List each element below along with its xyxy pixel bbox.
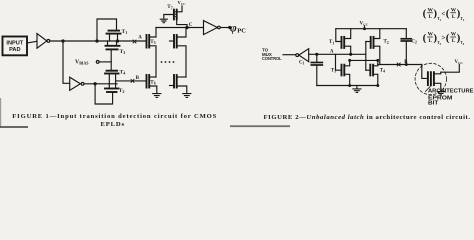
node dot C bbox=[186, 26, 188, 28]
node dot J1 bbox=[62, 40, 64, 42]
svg-text:T4: T4 bbox=[380, 68, 385, 73]
node dot rail-T3 bbox=[349, 85, 351, 87]
svg-text:C1: C1 bbox=[299, 60, 305, 65]
node dot A2-C1 bbox=[316, 53, 318, 55]
svg-text:VCC: VCC bbox=[455, 60, 464, 65]
svg-text:BIT: BIT bbox=[428, 101, 439, 107]
svg-text:L: L bbox=[452, 38, 456, 44]
svg-text:VBIAS: VBIAS bbox=[75, 59, 89, 65]
power Vcc2 lead bbox=[441, 64, 460, 72]
scan artifact lines bbox=[0, 126, 28, 128]
transistor T2 bbox=[105, 88, 119, 90]
svg-text:PAD: PAD bbox=[9, 47, 20, 53]
node dot rail-T4 bbox=[377, 85, 379, 87]
svg-text:T3: T3 bbox=[120, 49, 126, 55]
ground under T6 bbox=[153, 94, 161, 98]
svg-text:φ: φ bbox=[230, 22, 237, 34]
svg-text:FIGURE 1—Input transition dete: FIGURE 1—Input transition detection circ… bbox=[12, 113, 216, 120]
svg-text:(: ( bbox=[423, 8, 427, 20]
svg-text:T1: T1 bbox=[329, 40, 334, 45]
transistor T1 bbox=[109, 30, 120, 32]
inverter U4 bbox=[296, 54, 299, 57]
transistor channel box T4/T2 bbox=[108, 74, 110, 89]
svg-text:T2: T2 bbox=[384, 40, 389, 45]
wire node B bbox=[116, 80, 147, 82]
node dot J3 bbox=[116, 40, 118, 42]
transistor T5 bbox=[146, 35, 148, 48]
transistor T4b bbox=[366, 69, 371, 71]
node dot rail bbox=[364, 28, 366, 30]
transistor EPROM Q5 bbox=[427, 72, 429, 85]
wire A2 to gates drop bbox=[365, 42, 367, 71]
wire delay branch bbox=[63, 41, 70, 83]
svg-text:(: ( bbox=[446, 8, 450, 20]
ground under Q5 bbox=[437, 92, 444, 95]
transistor T4 bbox=[107, 70, 118, 72]
wire T2 gate loop bbox=[95, 84, 113, 104]
svg-text:A: A bbox=[330, 50, 334, 55]
wire top rail fig2 bbox=[336, 28, 407, 30]
leader line architecture bbox=[426, 86, 432, 92]
svg-text:T2: T2 bbox=[119, 88, 125, 94]
node dot cross-l bbox=[349, 60, 351, 62]
ground fig2 bbox=[356, 86, 358, 89]
wire node A2 run bbox=[309, 53, 366, 55]
svg-text:ARCHITECTURE: ARCHITECTURE bbox=[428, 89, 474, 95]
inverter U2 bbox=[70, 77, 81, 90]
capacitor C1 bbox=[316, 54, 318, 62]
svg-text:CONTROL: CONTROL bbox=[262, 56, 282, 61]
svg-text:(: ( bbox=[446, 32, 450, 44]
wire top rail node C bbox=[156, 27, 204, 29]
wire T3 gate to T4 gate bbox=[110, 50, 112, 71]
transistor T7 bbox=[177, 19, 187, 27]
transistor Q3 top-right stub bbox=[170, 40, 175, 42]
svg-text:PC: PC bbox=[237, 27, 246, 34]
power Vcc stem bbox=[364, 26, 366, 29]
svg-text:<: < bbox=[441, 10, 445, 18]
wire T7 drain to Vcc bbox=[177, 6, 182, 12]
dashed circle eprom bbox=[415, 63, 446, 94]
ellipsis dots bbox=[161, 61, 163, 63]
svg-text:T4: T4 bbox=[120, 69, 126, 75]
node dot cross-r bbox=[377, 60, 379, 62]
wire node A run bbox=[50, 40, 147, 42]
wire T1 feedback loop bbox=[97, 19, 117, 41]
transistor T3 bbox=[107, 41, 109, 46]
ground under Q4 bbox=[183, 94, 191, 98]
VBIAS terminal bbox=[96, 61, 99, 64]
svg-text:INPUT: INPUT bbox=[6, 41, 23, 47]
wire U2 output bbox=[84, 83, 117, 85]
wire cross couple bbox=[350, 59, 378, 61]
node dot J4 bbox=[94, 83, 96, 85]
inverter U3 bbox=[204, 21, 218, 35]
svg-text:(: ( bbox=[423, 32, 427, 44]
capacitor C2 bbox=[405, 29, 407, 39]
transistor Q4 bottom-right stub bbox=[170, 85, 175, 87]
inverter U1 bbox=[37, 34, 47, 49]
node dot A2-T1 bbox=[350, 53, 352, 55]
svg-text:>: > bbox=[441, 34, 445, 42]
wire mux to inverter bbox=[283, 54, 296, 56]
svg-text:VCC: VCC bbox=[360, 22, 369, 27]
formula WL T3 greater T4 bbox=[423, 32, 465, 47]
transistor T2b bbox=[366, 41, 371, 43]
svg-text:C2: C2 bbox=[411, 39, 417, 44]
node B2 x-mark bbox=[397, 63, 400, 66]
svg-text:L: L bbox=[429, 14, 433, 20]
transistor T3b bbox=[336, 54, 342, 70]
svg-text:L: L bbox=[452, 14, 456, 20]
wire VBIAS bbox=[99, 61, 111, 63]
node A x-mark bbox=[133, 40, 136, 43]
svg-text:T3: T3 bbox=[331, 68, 336, 73]
wire U3 output bbox=[221, 27, 230, 29]
node B x-mark bbox=[131, 79, 134, 82]
wire pad to inverter bbox=[27, 41, 37, 43]
wire node B2 bbox=[378, 64, 422, 66]
input pad box bbox=[3, 37, 28, 56]
svg-text:A: A bbox=[138, 35, 142, 40]
formula WL T1 less T2 bbox=[423, 7, 465, 22]
ground at T7 gate bbox=[160, 19, 167, 23]
transistor T1b bbox=[336, 29, 342, 42]
node dot B2-C2 bbox=[405, 64, 407, 66]
svg-text:L: L bbox=[429, 38, 433, 44]
node dot J2 bbox=[96, 40, 98, 42]
wire T7 gate bbox=[164, 15, 174, 19]
wire bottom rail fig2 bbox=[317, 85, 378, 87]
svg-text:T1: T1 bbox=[122, 29, 128, 35]
svg-text:EPLDs: EPLDs bbox=[101, 121, 125, 128]
transistor T6 bbox=[146, 75, 148, 88]
svg-text:C: C bbox=[189, 22, 193, 28]
wire B2 to eprom gate bbox=[422, 65, 427, 79]
svg-text:FIGURE 2—Unbalanced latch in a: FIGURE 2—Unbalanced latch in architectur… bbox=[264, 114, 471, 121]
